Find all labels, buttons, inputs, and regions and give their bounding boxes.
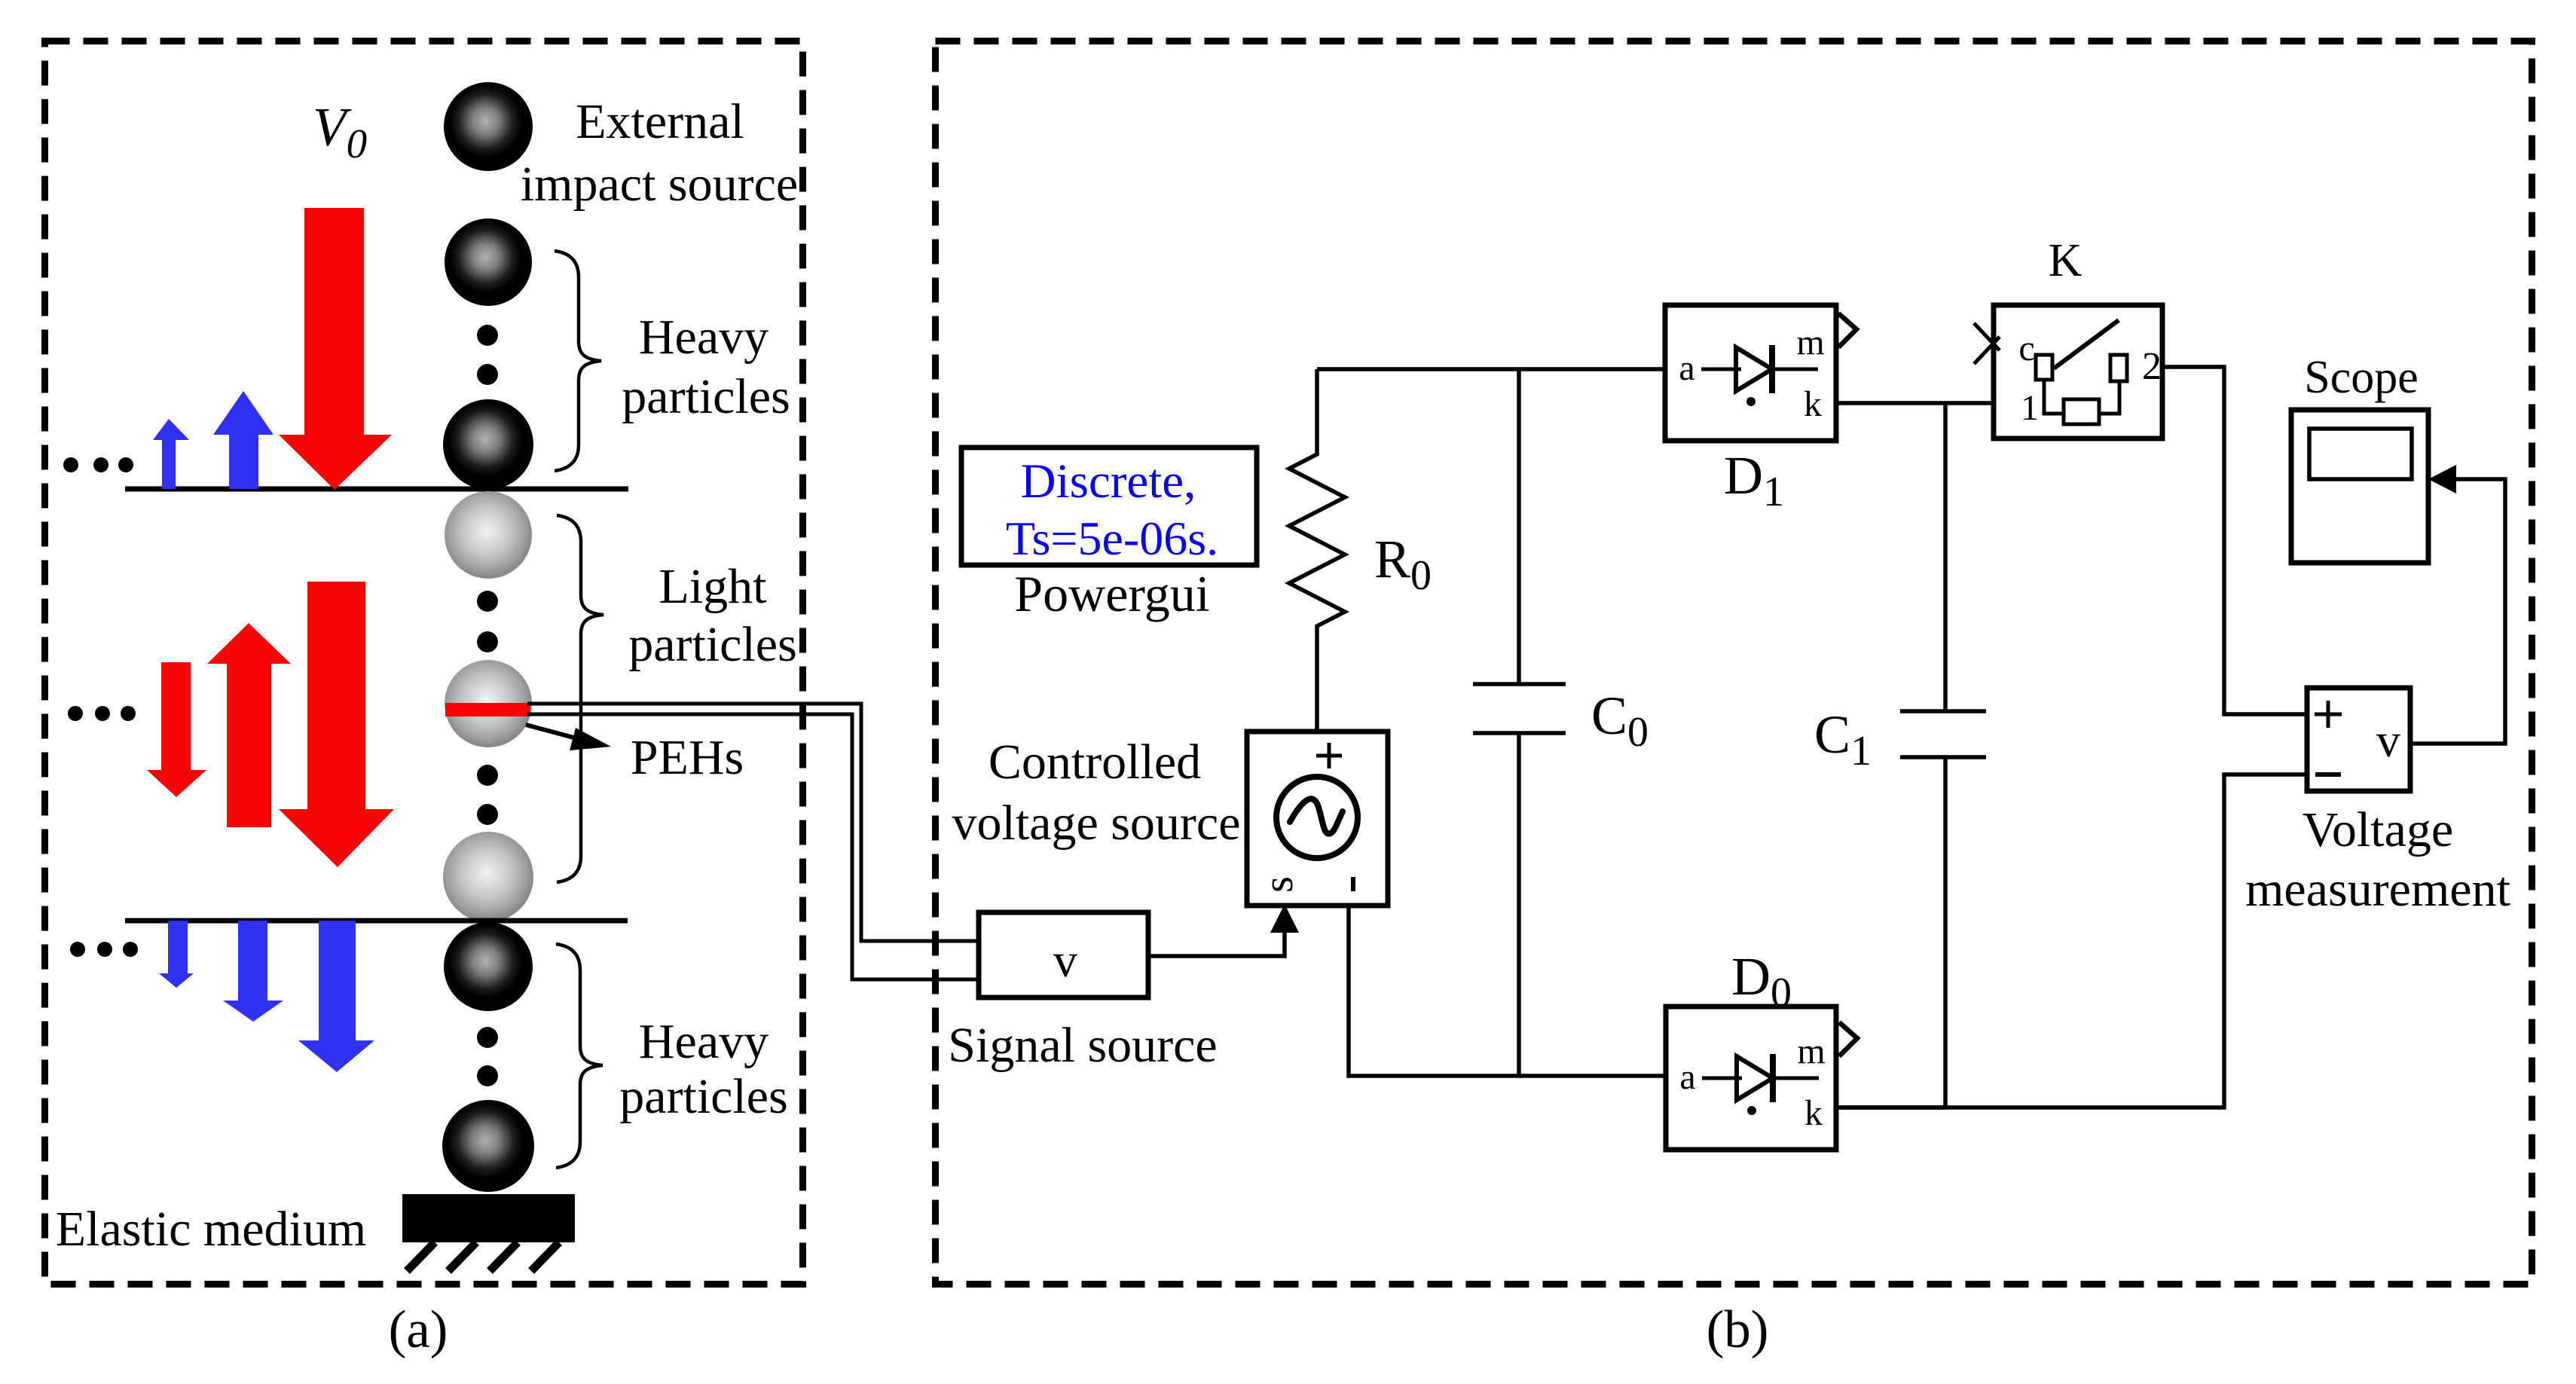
svg-text:particles: particles bbox=[622, 369, 790, 424]
top bus wire bbox=[1317, 367, 1665, 371]
PEH output wire lower bbox=[527, 714, 979, 979]
panel (a) dashed border bbox=[45, 41, 803, 1285]
svg-text:(b): (b) bbox=[1707, 1300, 1769, 1359]
svg-text:1: 1 bbox=[2021, 388, 2039, 428]
PEH red electrode band bbox=[445, 703, 530, 716]
svg-text:a: a bbox=[1679, 348, 1694, 388]
svg-text:External: External bbox=[576, 94, 744, 149]
ellipsis dots between light particles (upper) bbox=[477, 591, 498, 652]
brace: light particles bbox=[557, 515, 604, 882]
brace: heavy particles (top) bbox=[555, 251, 601, 471]
wire D1 k to switch K bbox=[1836, 401, 1994, 405]
resistor R0 bbox=[1289, 369, 1345, 733]
sphere: light particle 1 bbox=[445, 491, 532, 579]
svg-text:Voltage: Voltage bbox=[2303, 802, 2453, 857]
svg-text:Scope: Scope bbox=[2304, 352, 2419, 403]
svg-text:a: a bbox=[1679, 1057, 1695, 1097]
svg-text:Ts=5e-06s.: Ts=5e-06s. bbox=[1006, 512, 1218, 565]
PEHs pointer arrow bbox=[526, 725, 611, 750]
wire signal source to s input bbox=[1148, 904, 1299, 956]
large red down arrow V0 impact bbox=[279, 208, 392, 490]
voltage measurement block bbox=[2307, 688, 2410, 791]
sphere: heavy particle 1 bbox=[445, 218, 532, 306]
sphere: light particle 2 bbox=[443, 832, 533, 922]
small red down arrow (middle group) bbox=[147, 662, 206, 797]
medium blue down arrow (bottom group) bbox=[223, 921, 283, 1022]
svg-text:particles: particles bbox=[628, 617, 797, 672]
svg-text:(a): (a) bbox=[389, 1300, 448, 1359]
ellipsis dots between light particles (lower) bbox=[477, 765, 498, 825]
interface line 1 bbox=[125, 487, 628, 492]
svg-text:v: v bbox=[1053, 933, 1077, 987]
svg-text:K: K bbox=[2049, 235, 2082, 286]
wire v output to scope bbox=[2410, 465, 2505, 744]
small blue down arrow (bottom group) bbox=[159, 921, 194, 988]
elastic medium base block bbox=[402, 1194, 575, 1242]
wire D0 k to bottom bus bbox=[1836, 1105, 1945, 1110]
diode block D1 bbox=[1665, 305, 1856, 441]
controlled voltage source block U1 bbox=[1247, 732, 1388, 906]
bottom bus wire bbox=[1836, 774, 2307, 1108]
interface line 2 bbox=[125, 918, 628, 924]
sphere: heavy particle 2 bbox=[443, 399, 533, 490]
large red down arrow (middle group) bbox=[279, 582, 394, 867]
svg-text:voltage source: voltage source bbox=[952, 796, 1240, 851]
svg-text:s: s bbox=[1255, 876, 1302, 893]
svg-text:v: v bbox=[2376, 713, 2400, 767]
top-left ellipsis dots bbox=[63, 457, 133, 472]
ellipsis dots between heavy particles bbox=[477, 325, 498, 385]
middle-left ellipsis dots bbox=[68, 706, 136, 721]
ellipsis dots between lower heavy particles bbox=[477, 1027, 498, 1086]
panel (b) dashed border bbox=[936, 41, 2532, 1285]
signal source block bbox=[979, 912, 1148, 998]
large blue down arrow (bottom group) bbox=[298, 921, 374, 1072]
ground hatching bbox=[407, 1242, 559, 1271]
diode block D0 bbox=[1666, 1007, 1857, 1150]
svg-text:Light: Light bbox=[659, 559, 767, 614]
bottom-left ellipsis dots bbox=[70, 942, 138, 957]
svg-text:m: m bbox=[1796, 322, 1824, 362]
svg-text:impact source: impact source bbox=[521, 157, 798, 212]
svg-text:c: c bbox=[2018, 328, 2034, 368]
svg-text:Elastic medium: Elastic medium bbox=[56, 1202, 366, 1257]
sphere: heavy particle 3 bbox=[444, 922, 533, 1011]
switch block K bbox=[1974, 305, 2162, 438]
svg-text:Signal source: Signal source bbox=[948, 1018, 1217, 1073]
svg-text:2: 2 bbox=[2142, 345, 2162, 388]
svg-text:Heavy: Heavy bbox=[639, 1014, 769, 1069]
svg-text:PEHs: PEHs bbox=[631, 730, 744, 785]
capacitor C0 bbox=[1473, 369, 1566, 1076]
medium blue up arrow (top group) bbox=[213, 391, 273, 489]
capacitor C1 bbox=[1900, 403, 1986, 1108]
powergui block bbox=[961, 448, 1257, 565]
svg-text:Controlled: Controlled bbox=[989, 735, 1201, 790]
sphere: heavy particle 4 bbox=[442, 1100, 534, 1192]
scope block bbox=[2291, 410, 2428, 563]
wire voltage source minus to D0 bbox=[1349, 906, 1666, 1076]
small blue up arrow (top group) bbox=[153, 419, 189, 489]
sphere: external impact source bbox=[444, 82, 533, 171]
svg-text:k: k bbox=[1804, 384, 1822, 424]
svg-text:measurement: measurement bbox=[2245, 862, 2510, 917]
svg-text:k: k bbox=[1804, 1093, 1823, 1133]
svg-text:m: m bbox=[1797, 1031, 1825, 1071]
svg-text:particles: particles bbox=[619, 1069, 788, 1124]
svg-text:Discrete,: Discrete, bbox=[1021, 454, 1196, 509]
PEH output wire upper bbox=[527, 704, 979, 941]
sphere: light particle with PEH bbox=[445, 660, 532, 747]
svg-text:Powergui: Powergui bbox=[1014, 565, 1209, 622]
brace: heavy particles (bottom) bbox=[556, 944, 603, 1168]
wire K out to voltage measurement plus bbox=[2162, 367, 2307, 714]
svg-text:Heavy: Heavy bbox=[639, 310, 769, 365]
medium red up arrow (middle group) bbox=[207, 623, 291, 827]
